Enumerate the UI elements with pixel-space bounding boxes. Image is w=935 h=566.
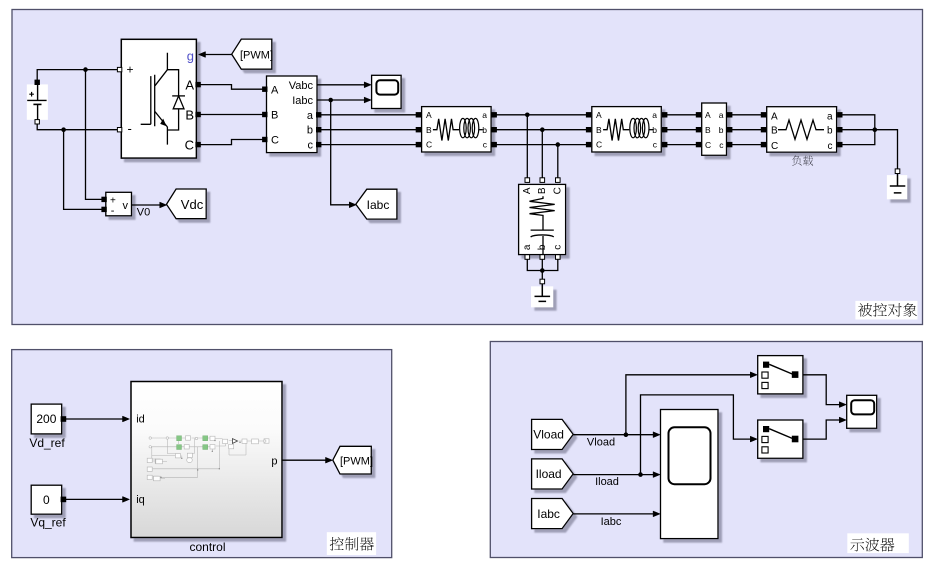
svg-text:iq: iq — [136, 494, 145, 506]
wire load a to ground bus — [840, 115, 874, 130]
svg-text:Iload: Iload — [536, 467, 562, 481]
svg-text:Vq_ref: Vq_ref — [30, 516, 66, 530]
inverter bridge U1 (IGBT/diode) — [117, 39, 200, 158]
three-phase measurement block (A B C / a b c) — [696, 103, 732, 155]
svg-text:a: a — [482, 110, 487, 120]
svg-text:C: C — [771, 141, 778, 152]
junction phase a tap — [525, 113, 530, 118]
DC voltage source V1 — [27, 80, 48, 124]
Goto tag PWM — [333, 446, 373, 474]
svg-text:200: 200 — [36, 412, 56, 426]
From tag [PWM] — [232, 39, 273, 69]
wire control p to Goto PWM — [282, 457, 333, 463]
svg-text:C: C — [426, 140, 432, 150]
junction below shunt — [540, 268, 545, 273]
constant block Vd_ref (200) — [31, 404, 65, 434]
wire RL2 a to block3 A — [665, 114, 699, 116]
area label 控制器 — [327, 532, 376, 555]
scope block (Vabc/Iabc) — [372, 75, 402, 108]
svg-text:B: B — [705, 125, 711, 135]
svg-text:+: + — [127, 63, 134, 77]
svg-text:p: p — [271, 456, 277, 468]
svg-text:Iabc: Iabc — [367, 198, 390, 212]
wire tap b to shunt B — [541, 130, 543, 178]
subsystem block control — [131, 382, 282, 538]
wire RL1 c to RL2 C — [495, 144, 590, 146]
svg-text:B: B — [271, 110, 278, 122]
manual switch 2 — [758, 420, 803, 458]
wire VI c to RL1 C — [321, 144, 420, 146]
scope block (load signals) — [661, 410, 719, 539]
svg-text:0: 0 — [43, 493, 50, 507]
junction ground bus — [873, 127, 878, 132]
wire RL2 c to block3 C — [665, 144, 699, 146]
wire Iabc to scope in3 — [573, 511, 660, 517]
svg-text:B: B — [537, 187, 548, 194]
area label 示波器 — [847, 533, 909, 553]
junction Vload — [624, 432, 629, 437]
svg-text:b: b — [482, 125, 487, 135]
wire From PWM to inverter g — [199, 52, 232, 58]
wire RL1 b to RL2 B — [495, 129, 590, 131]
svg-text:B: B — [771, 126, 778, 137]
wire inverter C to VI C — [200, 140, 264, 145]
area 被控对象 (plant region) — [12, 10, 923, 325]
wire RL2 b to block3 B — [665, 129, 699, 131]
constant block Vq_ref (0) — [31, 485, 65, 514]
svg-text:[PWM]: [PWM] — [340, 455, 373, 467]
svg-text:b: b — [827, 126, 833, 137]
label wire Iload — [595, 476, 619, 488]
svg-text:A: A — [705, 110, 711, 120]
From tag Vload — [532, 419, 574, 449]
svg-text:C: C — [596, 140, 602, 150]
svg-text:Vabc: Vabc — [289, 80, 314, 92]
wire block3 c to load C — [730, 144, 764, 146]
svg-text:b: b — [307, 125, 313, 137]
svg-text:b: b — [652, 125, 657, 135]
svg-text:Vload: Vload — [587, 436, 615, 448]
wire load b to ground — [840, 130, 897, 169]
manual switch 1 — [758, 356, 803, 394]
wire switch1 to scope2 in1 — [803, 375, 846, 408]
three-phase V-I measurement block — [263, 76, 321, 153]
svg-text:[PWM]: [PWM] — [240, 50, 273, 62]
wire Iabc junction to Goto Iabc — [331, 100, 357, 208]
wire Vload junction to switch1 — [626, 372, 757, 435]
wire + rail down to voltmeter+ — [86, 70, 104, 200]
svg-text:C: C — [552, 187, 563, 194]
junction on Iabc wire — [328, 98, 333, 103]
three-phase series RL branch 2 — [586, 107, 667, 152]
svg-text:Vload: Vload — [533, 428, 564, 442]
svg-text:A: A — [271, 84, 279, 96]
svg-text:-: - — [111, 205, 115, 217]
ground block G2 — [887, 169, 907, 199]
svg-text:-: - — [128, 121, 132, 136]
label 负载 — [792, 156, 813, 166]
three-phase shunt RC branch (rotated) — [519, 178, 566, 259]
svg-text:c: c — [308, 139, 314, 151]
svg-text:Iload: Iload — [595, 476, 619, 488]
ground block G1 — [531, 279, 553, 307]
svg-text:control: control — [189, 540, 225, 554]
wire Iabc to scope — [317, 97, 371, 103]
label control — [189, 540, 225, 554]
wire Vload to scope in1 — [573, 432, 660, 438]
voltage measurement block — [102, 192, 132, 217]
wire load c to ground bus — [840, 130, 874, 145]
wire Vabc to scope — [317, 82, 371, 88]
svg-text:a: a — [307, 110, 314, 122]
svg-text:c: c — [828, 141, 833, 152]
label wire Vload — [587, 436, 615, 448]
svg-text:a: a — [652, 110, 657, 120]
wire VI a to RL1 A — [321, 114, 420, 116]
svg-text:A: A — [426, 110, 432, 120]
area label 被控对象 — [855, 301, 917, 320]
svg-text:A: A — [522, 187, 533, 194]
svg-text:C: C — [185, 137, 194, 152]
svg-text:A: A — [596, 110, 602, 120]
area 控制器 (controller region) — [12, 350, 392, 558]
label V0 — [137, 207, 150, 219]
From tag Iabc2 — [532, 499, 574, 529]
wire shunt c to junction — [542, 259, 558, 270]
Goto tag Vdc — [167, 189, 207, 219]
svg-text:Vdc: Vdc — [181, 197, 204, 212]
svg-text:B: B — [185, 107, 194, 122]
wire block3 b to load B — [730, 129, 764, 131]
junction phase c tap — [556, 142, 561, 147]
svg-text:id: id — [136, 414, 145, 426]
wire Iload to scope in2 — [573, 472, 660, 478]
svg-text:B: B — [596, 125, 602, 135]
label wire Iabc — [601, 516, 622, 528]
wire - rail down to voltmeter- — [64, 130, 104, 210]
svg-text:Iabc: Iabc — [601, 516, 622, 528]
svg-text:C: C — [271, 135, 279, 147]
wire Vq_ref to control iq — [66, 497, 130, 503]
junction Iload — [638, 472, 643, 477]
svg-text:C: C — [705, 140, 711, 150]
wire block3 a to load A — [730, 114, 764, 116]
label Vd_ref — [29, 436, 65, 450]
junction on + rail — [83, 67, 88, 72]
svg-text:a: a — [522, 244, 533, 250]
svg-text:v: v — [123, 200, 129, 212]
svg-text:A: A — [771, 111, 778, 122]
wire shunt b to ground — [541, 259, 543, 279]
wire tap a to shunt A — [526, 115, 528, 178]
Goto tag Iabc — [356, 189, 397, 219]
scope block 2 (small) — [847, 395, 877, 428]
wire shunt a to junction — [527, 259, 542, 270]
wire inverter A to VI A — [200, 85, 264, 90]
svg-text:a: a — [827, 111, 833, 122]
From tag Iload — [532, 459, 574, 489]
wire Iload junction to switch2 — [641, 395, 758, 475]
svg-text:b: b — [719, 125, 724, 135]
svg-text:c: c — [552, 245, 563, 250]
svg-text:b: b — [537, 244, 548, 250]
wire switch2 to scope2 in2 — [803, 417, 846, 439]
svg-text:Iabc: Iabc — [292, 95, 313, 107]
svg-text:B: B — [426, 125, 432, 135]
svg-text:A: A — [185, 78, 194, 93]
junction on - rail — [61, 127, 66, 132]
wire Vd_ref to control id — [66, 416, 130, 422]
wire VI b to RL1 B — [321, 129, 420, 131]
wire battery- to inverter- — [37, 124, 119, 130]
three-phase series RL branch 1 — [416, 107, 496, 152]
wire tap c to shunt C — [557, 145, 559, 178]
svg-text:V0: V0 — [137, 207, 150, 219]
wire RL1 a to RL2 A — [495, 114, 590, 116]
wire voltmeter v to Vdc — [132, 202, 167, 208]
svg-text:Vd_ref: Vd_ref — [29, 436, 65, 450]
svg-text:Iabc: Iabc — [537, 507, 560, 521]
wire inverter B to VI B — [200, 114, 264, 116]
svg-text:g: g — [187, 48, 194, 63]
area 示波器 (scope region) — [490, 342, 922, 558]
label Vq_ref — [30, 516, 66, 530]
wire battery+ to inverter+ — [37, 70, 119, 81]
junction phase b tap — [540, 127, 545, 132]
load block 负载 (three-phase resistive load) — [761, 107, 842, 153]
svg-text:a: a — [719, 110, 724, 120]
